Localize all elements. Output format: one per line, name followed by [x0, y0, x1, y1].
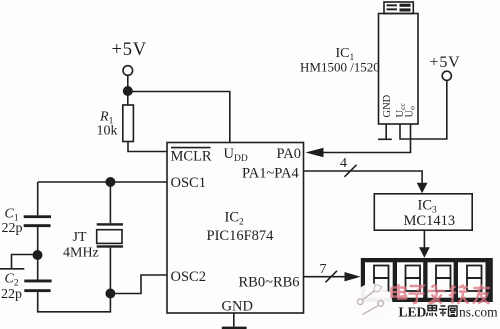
svg-text:PIC16F874: PIC16F874: [207, 228, 275, 244]
svg-text:MC1413: MC1413: [404, 213, 456, 229]
svg-text:RB0~RB6: RB0~RB6: [239, 275, 300, 291]
bus width slash 7: [326, 271, 338, 283]
arrow into PA0: [306, 148, 324, 158]
svg-text:HM1500 /1520: HM1500 /1520: [300, 60, 380, 75]
watermark text shao (烧): [449, 285, 469, 304]
pin label Ucc (rotated): [395, 103, 407, 118]
pin label GND (rotated): [382, 94, 393, 117]
resistor R1 body: [123, 105, 134, 142]
crystal JT 4MHz: [97, 223, 123, 248]
svg-text:+5V: +5V: [112, 40, 147, 60]
digit 8 cell 3: [436, 266, 451, 292]
svg-text:10k: 10k: [97, 124, 118, 139]
svg-text:7: 7: [320, 262, 327, 277]
power +5V terminal circle (left): [123, 66, 133, 76]
digit 8 cell 2: [406, 266, 421, 292]
IC3 name label: [418, 198, 438, 216]
wire IC3 to LED display: [423, 230, 425, 247]
svg-text:ns.com: ns.com: [459, 305, 498, 320]
pin label PA0: [277, 146, 301, 162]
svg-text:+5V: +5V: [430, 54, 461, 71]
IC1 name label: [336, 46, 355, 63]
arrow into LED display (top): [419, 247, 430, 258]
pin label OSC2: [171, 269, 206, 285]
crystal label JT 4MHz: [63, 230, 99, 261]
driver IC3 box: [374, 194, 472, 230]
digit 8 cell 1: [374, 266, 389, 292]
svg-text:PA1~PA4: PA1~PA4: [242, 166, 300, 182]
pin label MCLR (active low): [171, 148, 212, 165]
op IC2 PIC16F874 box: [167, 143, 304, 314]
power +5V label (left): [112, 40, 147, 60]
pin label Uo (rotated): [405, 106, 417, 118]
svg-text:22p: 22p: [2, 221, 23, 236]
arrow into IC3: [417, 183, 428, 194]
IC2 name label: [225, 210, 245, 228]
wire C1 bottom to junction: [37, 227, 39, 250]
wire OSC2 jog to IC2: [110, 275, 167, 294]
node junction dot between C1 and C2: [33, 250, 43, 260]
wire Ucc pin to +5V: [400, 80, 447, 139]
watermark logo circle: [353, 284, 393, 324]
wire junction to capacitor C2: [37, 255, 39, 280]
wire from +5V circle to junction: [127, 75, 129, 87]
svg-text:MCLR: MCLR: [171, 149, 212, 165]
label LED display (LED xianshiqi): [399, 305, 458, 320]
wire IC2 GND stem: [233, 313, 235, 327]
pin label GND: [222, 299, 253, 315]
svg-text:4MHz: 4MHz: [63, 246, 99, 261]
capacitor C2 label 22p: [1, 272, 22, 302]
power +5V label (right): [430, 54, 461, 71]
watermark text zi (子): [409, 286, 425, 304]
power +5V terminal circle (right): [442, 71, 451, 80]
pin label UDD: [224, 146, 248, 164]
wire resistor R1 bottom to MCLR pin: [128, 142, 167, 152]
LED display body: [361, 258, 493, 302]
wire PA1~PA4 bus to IC3: [304, 171, 423, 184]
ground bar under IC2: [222, 327, 247, 329]
wire RB0~RB6 bus to display: [304, 276, 346, 278]
svg-text:PA0: PA0: [277, 146, 301, 162]
svg-text:OSC2: OSC2: [171, 269, 206, 285]
sensor IC1 top sensing element: [384, 2, 413, 14]
watermark text fa (发): [428, 285, 445, 304]
watermark text dian (电): [392, 284, 407, 300]
IC3 part number MC1413: [404, 213, 456, 229]
wire GND pin of IC1: [385, 124, 387, 139]
ground bar under IC1: [378, 138, 392, 140]
node junction dot at +5V rail: [123, 86, 133, 96]
capacitor C1 label 22p: [2, 207, 23, 236]
svg-text:JT: JT: [73, 230, 87, 245]
node junction dot crystal bottom: [105, 289, 115, 299]
pin label PA1~PA4: [242, 166, 300, 182]
pin label OSC1: [171, 175, 206, 191]
watermark text you (友): [473, 285, 490, 304]
svg-text:4: 4: [340, 156, 347, 171]
wire Uo pin to PA0: [323, 124, 411, 153]
arrow into LED display (left): [345, 272, 361, 281]
svg-text:LED: LED: [399, 305, 427, 320]
node junction dot OSC1/crystal: [105, 177, 115, 187]
svg-text:22p: 22p: [1, 287, 22, 302]
wire +5V rail to UDD pin: [128, 92, 230, 143]
wire OSC1 down to capacitor C1: [37, 182, 39, 215]
IC1 part number HM1500 /1520: [300, 60, 380, 75]
svg-text:GND: GND: [222, 299, 253, 315]
wire crystal top lead: [109, 182, 111, 223]
capacitor C2 plates: [24, 280, 51, 293]
digit 8 cell 4: [467, 266, 482, 292]
wire ground stub off left edge: [0, 255, 38, 269]
watermark gray url tail ns.com: [459, 305, 498, 320]
wire junction to resistor R1 top: [127, 92, 129, 106]
sensor IC1 body HM1500: [379, 14, 419, 125]
wire OSC1 net: [38, 181, 167, 183]
capacitor C1 plates: [24, 215, 51, 227]
svg-text:GND: GND: [382, 94, 393, 117]
pin label RB0~RB6: [239, 275, 300, 291]
svg-text:OSC1: OSC1: [171, 175, 206, 191]
bus width label 7: [320, 262, 327, 277]
resistor R1 value label R1 10k: [97, 110, 118, 139]
bus width slash 4: [345, 165, 357, 177]
wire crystal bottom lead: [109, 248, 111, 294]
bus width label 4: [340, 156, 347, 171]
wire C2 bottom to crystal bottom node: [38, 292, 111, 312]
IC2 part number PIC16F874: [207, 228, 275, 244]
